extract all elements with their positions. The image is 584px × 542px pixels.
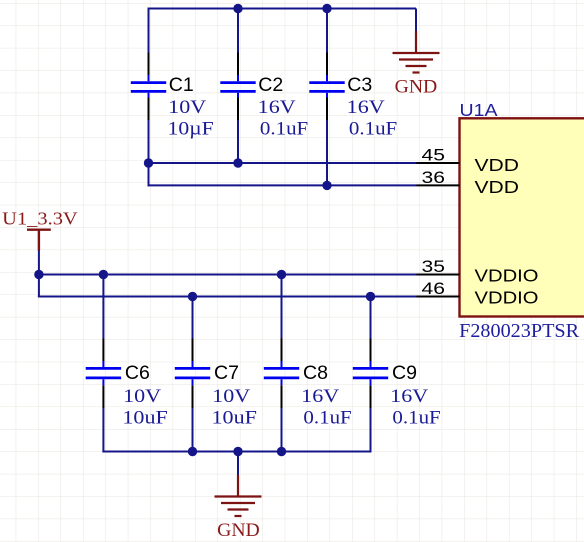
junction railA C6	[99, 270, 108, 279]
capacitor C3	[309, 53, 344, 121]
svg-text:VDDIO: VDDIO	[475, 266, 539, 286]
wire rail2 VDD36	[148, 184, 417, 186]
wire C8 upper	[281, 275, 283, 339]
ground GND1	[393, 31, 440, 73]
wire GND2 stem	[237, 452, 239, 476]
svg-text:10uF: 10uF	[122, 408, 167, 429]
wire top rail	[149, 8, 417, 10]
wire rail1 VDD45	[149, 162, 417, 164]
junction railA C8	[277, 270, 286, 279]
svg-text:U1_3.3V: U1_3.3V	[2, 209, 78, 229]
wire railB VDDIO46	[38, 296, 417, 298]
wire C3 top	[326, 9, 328, 53]
capacitor C7	[175, 339, 210, 409]
wire bottom rail	[102, 451, 371, 453]
svg-text:35: 35	[422, 257, 446, 276]
svg-text:VDDIO: VDDIO	[475, 288, 539, 308]
ground GND2	[215, 475, 262, 516]
wire C9 lower	[370, 408, 372, 453]
wire C2 top	[237, 9, 239, 53]
capacitor C2	[220, 53, 255, 121]
junction bottom rail C8	[277, 447, 286, 456]
svg-text:C6: C6	[125, 362, 150, 384]
svg-text:GND: GND	[395, 76, 438, 97]
pin 36	[417, 184, 460, 186]
svg-text:10V: 10V	[212, 386, 250, 407]
junction railB C9	[366, 292, 375, 301]
capacitor C6	[86, 339, 121, 409]
svg-text:0.1uF: 0.1uF	[260, 119, 308, 140]
wire C7 lower	[192, 408, 194, 452]
svg-text:10uF: 10uF	[212, 408, 257, 429]
junction top rail C3	[322, 4, 331, 13]
svg-text:VDD: VDD	[475, 155, 520, 175]
svg-text:C9: C9	[392, 362, 417, 384]
svg-text:10µF: 10µF	[168, 119, 214, 140]
junction rail1 C2	[233, 158, 242, 167]
svg-text:0.1uF: 0.1uF	[349, 119, 397, 140]
capacitor C1	[131, 53, 166, 121]
svg-text:C3: C3	[347, 74, 372, 96]
capacitor C8	[264, 339, 299, 409]
wire C2 bottom	[237, 120, 239, 163]
svg-text:16V: 16V	[347, 97, 385, 118]
svg-text:0.1uF: 0.1uF	[303, 408, 351, 429]
svg-text:16V: 16V	[301, 386, 339, 407]
wire C8 lower	[281, 408, 283, 452]
junction rail2 C3	[322, 181, 331, 190]
junction bottom rail GND	[233, 447, 242, 456]
svg-text:VDD: VDD	[475, 177, 520, 197]
svg-text:10V: 10V	[168, 97, 206, 118]
svg-text:45: 45	[422, 146, 446, 165]
svg-text:16V: 16V	[390, 386, 428, 407]
svg-text:46: 46	[422, 279, 446, 298]
wire C7 upper	[192, 297, 194, 339]
wire C6 upper	[102, 275, 104, 339]
wire C1 bottom to rail2	[148, 120, 150, 186]
svg-text:C7: C7	[214, 362, 239, 384]
wire C6 lower	[102, 408, 104, 453]
junction bottom rail C7	[188, 447, 197, 456]
wire power stem	[38, 250, 40, 298]
svg-text:C8: C8	[303, 362, 328, 384]
svg-text:F280023PTSR: F280023PTSR	[459, 320, 580, 342]
junction railA stem	[34, 270, 43, 279]
power port U1_3.3V	[27, 230, 51, 251]
pin 45	[417, 162, 460, 164]
svg-text:16V: 16V	[258, 97, 296, 118]
wire C3 bottom	[326, 120, 328, 185]
svg-text:0.1uF: 0.1uF	[392, 408, 440, 429]
svg-text:GND: GND	[217, 520, 260, 541]
IC U1A	[460, 118, 584, 316]
wire C1 top	[148, 8, 150, 53]
svg-text:C1: C1	[169, 74, 194, 96]
junction top rail C2	[233, 4, 242, 13]
wire C9 upper	[370, 297, 372, 339]
wire railA VDDIO35	[39, 274, 417, 276]
wire GND1 drop	[415, 9, 417, 32]
junction railB C7	[188, 292, 197, 301]
pin 35	[417, 274, 460, 276]
svg-text:36: 36	[422, 168, 446, 187]
svg-text:10V: 10V	[123, 386, 161, 407]
junction rail1 C1	[144, 158, 153, 167]
svg-text:C2: C2	[258, 74, 283, 96]
svg-text:U1A: U1A	[460, 100, 498, 120]
capacitor C9	[353, 339, 388, 409]
pin 46	[417, 296, 460, 298]
